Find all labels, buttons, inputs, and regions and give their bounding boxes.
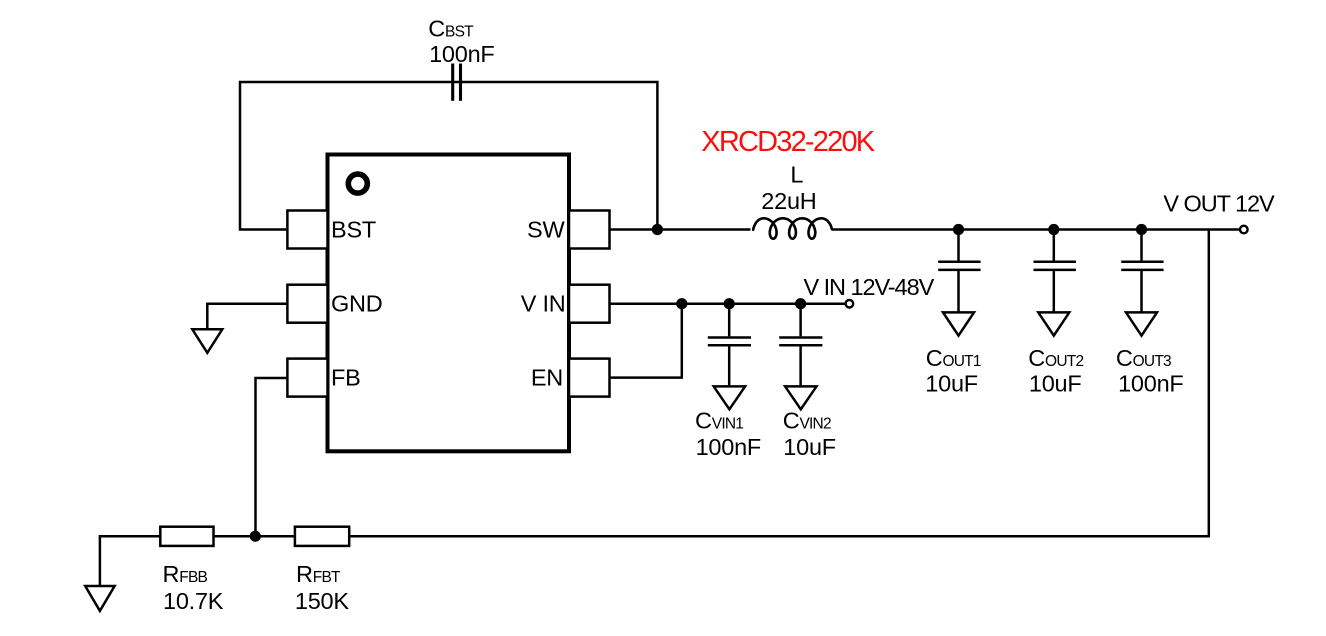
- terminal VOUT (open circle): [1240, 226, 1248, 234]
- svg-text:100nF: 100nF: [696, 434, 761, 460]
- pin FB: [287, 359, 327, 397]
- svg-text:L: L: [790, 161, 803, 187]
- wire VOUT feedback (down and along bottom): [349, 230, 1209, 537]
- capacitor CBST: [453, 64, 461, 101]
- svg-text:10uF: 10uF: [1029, 371, 1082, 397]
- IC U1 body: [328, 155, 570, 452]
- svg-text:EN: EN: [531, 365, 563, 391]
- node COUT3 junction: [1136, 224, 1147, 235]
- node CVIN1 junction: [724, 298, 735, 309]
- wire BST loop (BST pin to top rail to SW node): [240, 82, 657, 230]
- svg-text:XRCD32-220K: XRCD32-220K: [701, 126, 875, 158]
- node COUT1 junction: [953, 224, 964, 235]
- node COUT2 junction: [1048, 224, 1059, 235]
- node CVIN2 junction: [795, 298, 806, 309]
- terminal VIN (open circle): [846, 300, 854, 308]
- ground (GND pin): [192, 329, 222, 353]
- capacitor COUT3: [1121, 230, 1163, 314]
- wire inductor to VOUT terminal: [832, 228, 1239, 231]
- svg-text:FB: FB: [331, 365, 361, 391]
- svg-text:22uH: 22uH: [761, 188, 816, 214]
- ground (CVIN1): [714, 386, 745, 409]
- svg-text:100nF: 100nF: [429, 41, 494, 67]
- svg-text:100nF: 100nF: [1118, 371, 1183, 397]
- capacitor COUT1: [938, 230, 980, 314]
- svg-text:V OUT 12V: V OUT 12V: [1163, 190, 1275, 216]
- node EN/VIN junction: [676, 298, 687, 309]
- wire RFBT to FB node: [214, 535, 295, 538]
- pin GND: [287, 285, 327, 323]
- ground (COUT2): [1038, 312, 1069, 335]
- node FB junction: [250, 531, 261, 542]
- wire VIN pin to VIN terminal: [610, 302, 846, 305]
- wire SW output rail (SW pin to inductor): [610, 228, 751, 231]
- capacitor COUT2: [1034, 230, 1076, 314]
- pin EN: [569, 359, 610, 397]
- resistor RFBT: [295, 527, 349, 546]
- svg-text:GND: GND: [331, 291, 383, 317]
- inductor L coil: [753, 218, 832, 238]
- pin VIN: [569, 285, 610, 323]
- ground (COUT3): [1126, 312, 1157, 335]
- capacitor CVIN2: [779, 304, 822, 388]
- svg-text:V IN 12V-48V: V IN 12V-48V: [804, 274, 935, 300]
- svg-text:10.7K: 10.7K: [163, 588, 224, 614]
- wire GND pin to ground: [207, 304, 287, 331]
- svg-text:V IN: V IN: [521, 291, 566, 317]
- ground (CVIN2): [785, 386, 816, 409]
- svg-text:10uF: 10uF: [783, 434, 836, 460]
- wire FB pin to feedback node: [256, 378, 288, 536]
- ground (COUT1): [943, 312, 974, 335]
- wire RFBB to ground: [100, 536, 160, 587]
- pin SW: [569, 211, 610, 249]
- svg-text:SW: SW: [527, 216, 565, 242]
- IC pin-1 indicator circle: [348, 174, 367, 193]
- pin BST: [287, 211, 327, 249]
- svg-text:BST: BST: [331, 216, 376, 242]
- svg-text:150K: 150K: [295, 588, 350, 614]
- ground (RFBB): [85, 586, 114, 611]
- resistor RFBB: [160, 527, 213, 546]
- wire EN pin to VIN rail: [610, 304, 682, 378]
- capacitor CVIN1: [708, 304, 751, 388]
- svg-text:10uF: 10uF: [925, 371, 978, 397]
- node SW junction: [652, 224, 663, 235]
